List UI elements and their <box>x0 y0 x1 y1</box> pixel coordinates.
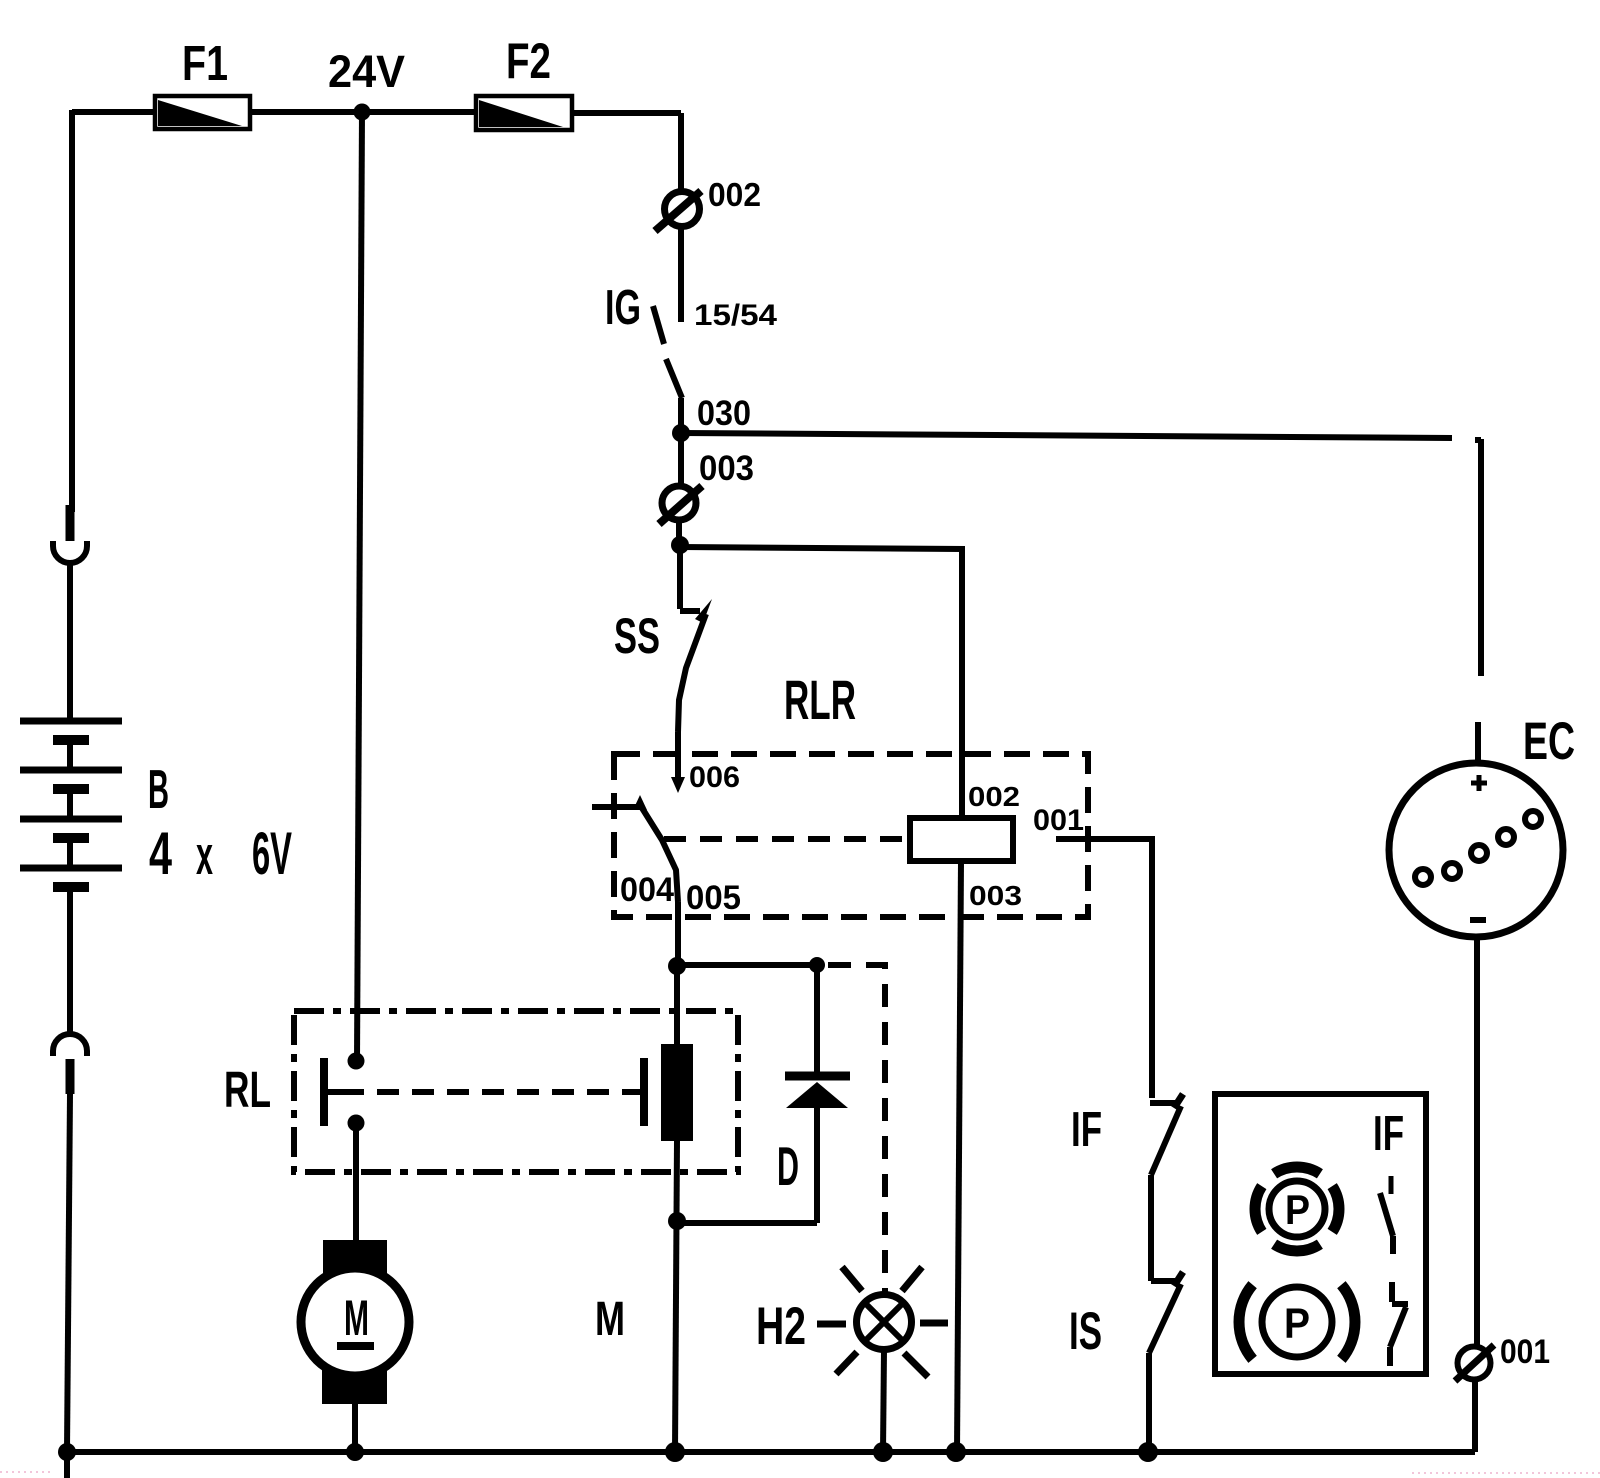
RL contact upper node dot <box>348 1053 365 1070</box>
wire EC to connector 001 <box>1474 937 1480 1346</box>
wire IG to node 030 <box>678 398 684 433</box>
wire left vertical from top corner down to connector <box>69 110 75 512</box>
wire EC feed vertical <box>1475 439 1481 763</box>
node 24V junction dot <box>354 104 371 121</box>
svg-text:x: x <box>196 824 213 886</box>
motor M brushes <box>323 1240 387 1282</box>
wire center column corner down to connector 002 <box>678 113 684 192</box>
node 030 junction dot <box>672 424 690 442</box>
battery connector lower (male pin) <box>66 1059 75 1094</box>
RL contact lower node dot <box>348 1115 365 1132</box>
wire RLR coil pin 003 down to bottom rail <box>957 861 961 1452</box>
relay coil RL (black) <box>661 1044 693 1141</box>
svg-text:IS: IS <box>1069 1302 1102 1361</box>
lamp H2 <box>817 1267 948 1377</box>
wire dashed to H2 lamp <box>828 965 885 1294</box>
RLR contact stub pin 004 <box>592 804 640 810</box>
wire 030 down to connector 003 <box>678 433 684 487</box>
svg-text:005: 005 <box>686 879 741 917</box>
motor M underline <box>337 1342 374 1350</box>
wire M branch through RL coil <box>674 966 680 1044</box>
indicator box <box>1215 1094 1426 1374</box>
wire 001 to bottom rail corner <box>1472 1380 1478 1452</box>
wire lower connector to bottom rail <box>67 1094 70 1450</box>
wire junction to diode branch <box>677 962 817 968</box>
wire RLR pin 005 down <box>675 902 681 960</box>
svg-text:F2: F2 <box>506 33 551 89</box>
fuse F1 <box>155 96 250 129</box>
svg-text:6V: 6V <box>252 820 292 887</box>
relay coil RLR <box>910 818 1013 861</box>
switch SS <box>678 599 712 732</box>
svg-text:H2: H2 <box>756 1297 806 1356</box>
electrolyte indicator EC <box>1389 763 1563 937</box>
wire 002 to IG switch <box>678 226 684 322</box>
svg-text:15/54: 15/54 <box>694 299 777 332</box>
svg-text:4: 4 <box>149 820 172 887</box>
svg-text:EC: EC <box>1523 712 1575 771</box>
wire 030 bus to right side <box>681 433 1452 438</box>
svg-text:IF: IF <box>1071 1103 1102 1157</box>
RL internal dashed link <box>342 1089 630 1095</box>
node diode bottom dot <box>668 1212 686 1230</box>
RLR switch blade <box>642 808 678 902</box>
switch IS <box>1149 1272 1183 1452</box>
RL contact right bar <box>630 1058 644 1126</box>
svg-text:030: 030 <box>697 394 751 433</box>
battery connector lower (female cup) <box>53 1034 87 1056</box>
wire connector to battery <box>67 563 73 721</box>
svg-text:IF: IF <box>1373 1107 1404 1161</box>
switch IG blade <box>653 306 682 398</box>
svg-text:003: 003 <box>699 449 754 488</box>
RLR internal dashed link to coil <box>664 836 910 842</box>
wire RLR pin 001 to IF chain <box>1056 839 1152 1098</box>
wire SS to RLR pin 006 with arrow <box>671 732 685 793</box>
svg-text:003: 003 <box>969 880 1022 911</box>
svg-text:M: M <box>344 1290 369 1346</box>
bottom rail <box>67 1449 1475 1455</box>
svg-text:F1: F1 <box>182 37 228 91</box>
box switch symbol upper <box>1380 1176 1393 1254</box>
wire F1 to 24V node <box>249 109 477 115</box>
battery connector upper (female cup) <box>53 541 87 563</box>
wire battery to lower connector <box>67 891 73 1034</box>
svg-text:M: M <box>595 1293 625 1346</box>
diode D <box>785 965 850 1223</box>
parking brake indicator symbol P2 <box>1239 1285 1355 1360</box>
wire 003 to junction <box>676 520 682 545</box>
RLR contact pivot arrow <box>633 795 647 810</box>
svg-text:IG: IG <box>605 281 641 335</box>
wire F2 to right corner <box>571 110 681 116</box>
scan artifact pink dots bottom <box>0 1472 1600 1473</box>
node junction 005/diode top <box>668 957 686 975</box>
svg-text:D: D <box>777 1135 799 1197</box>
svg-text:001: 001 <box>1500 1333 1550 1371</box>
wire stub below bottom-left corner <box>64 1452 70 1478</box>
switch IF <box>1150 1094 1183 1281</box>
relay RLR dashed box <box>614 754 1088 917</box>
svg-text:002: 002 <box>968 781 1020 812</box>
wire top rail left segment <box>72 109 156 115</box>
svg-text:SS: SS <box>614 608 660 664</box>
svg-text:004: 004 <box>620 871 674 909</box>
svg-text:RLR: RLR <box>784 668 856 731</box>
svg-text:002: 002 <box>708 176 761 213</box>
wire RL contact to motor <box>353 1123 359 1240</box>
battery B cells <box>20 721 122 887</box>
wire diode return <box>677 1220 817 1226</box>
svg-text:P: P <box>1284 1300 1310 1348</box>
wire 24V vertical down to RL contact <box>357 112 362 1061</box>
svg-text:24V: 24V <box>328 46 405 97</box>
svg-text:006: 006 <box>689 761 740 794</box>
motor M body <box>301 1268 409 1376</box>
wire junction right to RLR coil feed <box>680 547 962 818</box>
connector 002 <box>655 191 701 231</box>
relay RL dash-dot box <box>294 1011 738 1172</box>
svg-text:B: B <box>148 758 169 820</box>
svg-text:P: P <box>1285 1186 1310 1233</box>
brake indicator symbol P1 <box>1255 1167 1339 1251</box>
node rail dots <box>58 1442 1158 1462</box>
battery connector upper (male pin) <box>66 505 75 541</box>
wire junction down to SS <box>677 545 683 609</box>
svg-text:001: 001 <box>1033 804 1084 837</box>
svg-text:RL: RL <box>224 1061 271 1118</box>
connector 001 <box>1455 1345 1494 1381</box>
node junction below 003 <box>671 536 689 554</box>
wire H2 to bottom rail <box>883 1350 884 1452</box>
box switch symbol lower <box>1390 1282 1408 1366</box>
RL contact left bar <box>324 1058 342 1126</box>
node diode top dot <box>809 957 825 973</box>
connector 003 <box>659 486 702 524</box>
fuse F2 <box>476 96 572 130</box>
wire motor to bottom rail <box>352 1404 358 1452</box>
label 4 x 6V <box>149 820 292 887</box>
